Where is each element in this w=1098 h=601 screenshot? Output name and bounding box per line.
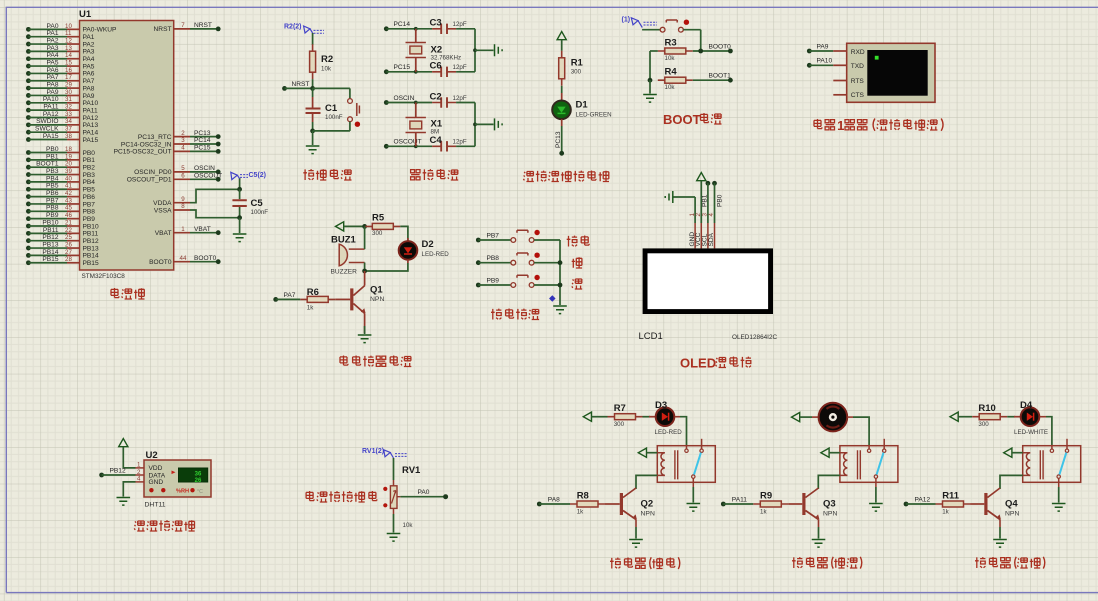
svg-text:PA10: PA10 [817, 58, 833, 65]
svg-text:PA12: PA12 [915, 496, 931, 503]
node PB12 [99, 467, 135, 477]
svg-text:VBAT: VBAT [194, 226, 211, 233]
node PA15 pin 38 [26, 133, 98, 144]
svg-text:BOOT0: BOOT0 [709, 43, 732, 50]
wire base [788, 503, 802, 505]
wire R5 to D2 [400, 226, 408, 240]
node OSCOUT [384, 139, 432, 149]
svg-text:2: 2 [181, 130, 185, 137]
relay RL2 [840, 439, 898, 487]
svg-text:PA13: PA13 [83, 122, 99, 129]
svg-text:C1: C1 [325, 103, 338, 114]
wire cap to right rail [456, 28, 475, 30]
svg-text:4: 4 [181, 145, 185, 152]
wire collector [364, 271, 366, 286]
svg-text:OSCOUT: OSCOUT [394, 139, 422, 146]
node VDDA pin 9 [153, 189, 239, 207]
svg-text:PA0: PA0 [418, 489, 430, 496]
node OSCIN pin 5 [134, 165, 220, 176]
wire relay common to ground [1058, 487, 1060, 503]
svg-text:LED-WHITE: LED-WHITE [1014, 429, 1048, 436]
svg-text:PB6: PB6 [83, 194, 96, 201]
svg-text:26: 26 [195, 478, 202, 484]
wire to ground [312, 131, 314, 145]
wire power to resistor [958, 416, 972, 418]
svg-text:°C: °C [197, 489, 203, 495]
svg-text:OSCOUT_PD1: OSCOUT_PD1 [127, 177, 172, 184]
transistor Q3 NPN [802, 488, 837, 520]
caption relay lighting [975, 557, 1045, 569]
svg-text:PA12: PA12 [83, 115, 99, 122]
node BOOT1 pin 20 [26, 161, 95, 172]
svg-text:VDDA: VDDA [153, 200, 172, 207]
svg-text:7: 7 [181, 22, 185, 29]
svg-text:D2: D2 [422, 239, 434, 250]
OLED pins and labels [689, 213, 715, 249]
ground emitter Q3 [812, 540, 826, 548]
node VSSA pin 8 [154, 203, 240, 218]
caption relay heating [610, 557, 680, 569]
wire VDD [123, 447, 135, 468]
svg-text:8: 8 [181, 203, 185, 210]
caption BOOT circuit [663, 112, 722, 127]
svg-text:27: 27 [65, 249, 72, 256]
svg-text:PB0: PB0 [717, 194, 724, 207]
svg-text:R3: R3 [665, 38, 677, 49]
svg-text:C2: C2 [430, 91, 442, 102]
wire NRST node down to C1 [312, 88, 314, 97]
power symbol [557, 32, 566, 40]
wire power to motor [800, 416, 812, 418]
svg-text:PA3: PA3 [47, 45, 59, 52]
node PA7 pin 17 [26, 74, 95, 85]
svg-text:NPN: NPN [823, 511, 837, 518]
node PB7 [476, 232, 511, 242]
svg-text:PA9: PA9 [817, 43, 829, 50]
svg-text:12pF: 12pF [453, 139, 467, 146]
svg-text:PA4: PA4 [83, 56, 95, 63]
wire to R2 [312, 33, 314, 45]
wire base [971, 503, 985, 505]
wire power to coil [647, 452, 658, 454]
node PB1 SCL [702, 181, 711, 223]
svg-text:PA9: PA9 [83, 93, 95, 100]
node PB15 pin 28 [26, 256, 99, 267]
svg-text:PB7: PB7 [487, 232, 500, 239]
ground buzzer [358, 335, 372, 343]
svg-text:RV1: RV1 [402, 465, 421, 476]
svg-text:PB1: PB1 [46, 153, 59, 160]
wire RV1 to ground [393, 514, 395, 533]
resistor R4 10k [658, 67, 693, 92]
svg-text:36: 36 [195, 471, 202, 477]
svg-text:BOOT0: BOOT0 [149, 259, 172, 266]
svg-text:10: 10 [65, 23, 72, 30]
svg-text:PA6: PA6 [47, 67, 59, 74]
svg-text:PB9: PB9 [83, 216, 96, 223]
svg-text:PB3: PB3 [83, 172, 96, 179]
motor/fan load [812, 403, 853, 432]
wire VCC [700, 181, 702, 223]
potentiometer RV1 10k [383, 465, 421, 529]
svg-text:SWDIO: SWDIO [36, 118, 58, 125]
svg-text:Q3: Q3 [823, 499, 836, 510]
svg-text:NRST: NRST [194, 22, 212, 29]
caption relay humidify [792, 557, 862, 569]
svg-text:PA1: PA1 [47, 30, 59, 37]
power symbol buzzer [336, 222, 344, 231]
wire motor to relay [853, 417, 869, 446]
capacitor C6 12pF [430, 61, 467, 77]
svg-text:PC14-OSC32_IN: PC14-OSC32_IN [121, 141, 172, 148]
svg-text:26: 26 [65, 241, 72, 248]
svg-text:PB10: PB10 [42, 219, 58, 226]
node BOOT0 pin 44 [149, 255, 220, 266]
svg-text:PA14: PA14 [83, 129, 99, 136]
svg-text:LED-RED: LED-RED [422, 251, 450, 258]
svg-text:PC13: PC13 [555, 131, 562, 148]
svg-text:PA15: PA15 [43, 133, 59, 140]
svg-text:PB6: PB6 [46, 190, 59, 197]
wire relay common to ground [692, 487, 694, 503]
svg-text:1: 1 [137, 462, 141, 469]
svg-text:PA3: PA3 [83, 49, 95, 56]
power symbol OLED VCC [697, 173, 706, 181]
svg-text:12: 12 [65, 37, 72, 44]
svg-text:18: 18 [65, 146, 72, 153]
node PA11 [721, 496, 753, 506]
svg-text:PB2: PB2 [83, 165, 96, 172]
node PA1 pin 11 [26, 30, 95, 41]
svg-text:43: 43 [65, 197, 72, 204]
caption serial window [814, 118, 943, 133]
caption set [567, 236, 589, 247]
node PB5 pin 41 [26, 183, 95, 194]
svg-text:37: 37 [65, 126, 72, 133]
svg-text:PB7: PB7 [46, 197, 59, 204]
svg-text:R4: R4 [665, 67, 678, 78]
svg-text:13: 13 [65, 45, 72, 52]
probe marker (1) [622, 17, 658, 28]
node PA7 [273, 292, 300, 302]
svg-text:BUZZER: BUZZER [331, 269, 358, 276]
resistor R3 10k [658, 38, 693, 63]
ground emitter Q4 [993, 540, 1007, 548]
svg-text:15: 15 [65, 59, 72, 66]
svg-text:31: 31 [65, 96, 72, 103]
node PC13 pin 2 [138, 130, 221, 141]
node PB14 pin 27 [26, 249, 99, 260]
wire button to BOOT0 node [700, 30, 702, 51]
caption alarm circuit [340, 356, 411, 367]
reset button [313, 88, 360, 130]
buzzer BUZ1 [331, 234, 365, 275]
power symbol top [583, 412, 591, 421]
svg-text:PB5: PB5 [83, 187, 96, 194]
node PB11 pin 22 [26, 227, 98, 238]
svg-text:39: 39 [65, 168, 72, 175]
wire VSSA to ground [239, 218, 241, 233]
caption light adjust [306, 491, 377, 502]
crystal X1 8M [406, 103, 443, 147]
ground DHT11 [117, 498, 131, 506]
svg-text:D3: D3 [655, 400, 667, 411]
node PA11 pin 32 [26, 104, 98, 115]
node PB0 pin 18 [26, 146, 95, 157]
svg-text:1: 1 [837, 118, 844, 133]
wire key rail [559, 240, 561, 305]
svg-text:PB8: PB8 [46, 205, 59, 212]
wire D4 to relay [1046, 417, 1052, 446]
svg-text:100nF: 100nF [251, 209, 269, 216]
caption temp-humidity module [134, 520, 194, 531]
node PA2 pin 12 [26, 37, 95, 48]
node VBAT pin 1 [155, 226, 221, 237]
key button PB7 [511, 230, 560, 243]
svg-text:1: 1 [181, 226, 185, 233]
svg-text:100nF: 100nF [325, 114, 343, 121]
wire emitter to ground [364, 314, 366, 334]
node PA8 [537, 496, 570, 506]
resistor R10 300 [972, 403, 1007, 428]
wire power to coil [1012, 452, 1023, 454]
ground relay RL2 [869, 504, 883, 512]
caption main chip [111, 288, 145, 299]
svg-text:25: 25 [65, 234, 72, 241]
svg-text:OLED12864I2C: OLED12864I2C [732, 334, 778, 341]
resistor R2 10k [310, 44, 334, 79]
svg-text:OSCIN: OSCIN [394, 95, 415, 102]
ground crystal [495, 44, 503, 56]
svg-text:OSCOUT: OSCOUT [194, 173, 222, 180]
probe marker C5(2) [231, 172, 266, 180]
node SWDIO pin 34 [26, 118, 98, 129]
svg-text:19: 19 [65, 153, 72, 160]
node PA3 pin 13 [26, 45, 95, 56]
svg-text:BUZ1: BUZ1 [331, 234, 357, 245]
svg-text:PA0-WKUP: PA0-WKUP [83, 27, 118, 34]
svg-text:NPN: NPN [370, 296, 384, 303]
svg-text:Q2: Q2 [641, 499, 654, 510]
ground reset [306, 146, 320, 154]
sensor U2 DHT11 [136, 450, 212, 509]
svg-text:PB9: PB9 [487, 277, 500, 284]
caption keys [491, 309, 539, 320]
node PA12 [904, 496, 936, 506]
wire R3 to R4 [650, 50, 658, 52]
svg-text:LED-RED: LED-RED [655, 429, 683, 436]
wire to ground tap [475, 123, 494, 125]
svg-text:%RH: %RH [176, 489, 189, 495]
svg-text:PB14: PB14 [42, 249, 58, 256]
svg-text:12pF: 12pF [453, 64, 467, 71]
svg-text:46: 46 [65, 212, 72, 219]
capacitor C2 12pF [430, 91, 467, 107]
power symbol top [950, 412, 958, 421]
svg-text:45: 45 [65, 205, 72, 212]
svg-text:10k: 10k [665, 84, 676, 91]
wire cap to right rail [456, 71, 475, 73]
svg-text:11: 11 [65, 30, 72, 37]
svg-text:30: 30 [65, 89, 72, 96]
svg-text:PB5: PB5 [46, 183, 59, 190]
probe marker keys [549, 295, 556, 302]
svg-text:BOOT: BOOT [663, 112, 701, 127]
svg-text:PA5: PA5 [83, 63, 95, 70]
wire base [605, 503, 620, 505]
wire power to node [344, 225, 365, 227]
svg-text:PA10: PA10 [83, 100, 99, 107]
node PC15 [384, 64, 432, 74]
node PB9 pin 46 [26, 212, 95, 223]
transistor Q2 NPN [620, 488, 655, 520]
svg-text:PB9: PB9 [46, 212, 59, 219]
svg-text:PA0: PA0 [47, 23, 59, 30]
svg-text:C3: C3 [430, 18, 442, 29]
wire power to resistor [592, 416, 608, 418]
svg-text:5: 5 [181, 165, 185, 172]
svg-text:STM32F103C8: STM32F103C8 [82, 273, 126, 280]
svg-text:C5: C5 [251, 198, 264, 209]
node PA6 pin 16 [26, 67, 95, 78]
power symbol relay coil [1004, 448, 1012, 457]
svg-text:42: 42 [65, 190, 72, 197]
svg-text:PA11: PA11 [732, 496, 747, 503]
svg-text:29: 29 [65, 82, 72, 89]
svg-text:GND: GND [149, 479, 164, 486]
svg-text:PA8: PA8 [47, 82, 59, 89]
wire coil to collector [1000, 475, 1023, 489]
svg-text:PB13: PB13 [83, 245, 99, 252]
ground relay RL3 [1052, 504, 1066, 512]
svg-text:(1): (1) [622, 17, 631, 24]
node NRST [282, 81, 315, 91]
svg-text:20: 20 [65, 161, 72, 168]
svg-text:14: 14 [65, 52, 72, 59]
probe marker R2(2) [284, 24, 324, 34]
LED D2 LED-RED [399, 238, 449, 263]
svg-text:R11: R11 [942, 491, 960, 502]
caption plus [572, 257, 582, 268]
node PC14 [384, 21, 432, 31]
svg-text:R9: R9 [760, 491, 772, 502]
svg-text:PB1: PB1 [702, 194, 709, 207]
wire GND pin [694, 197, 696, 223]
svg-text:PA7: PA7 [47, 74, 59, 81]
node BOOT0 [693, 43, 733, 53]
svg-text:DHT11: DHT11 [145, 502, 166, 509]
power symbol relay coil [638, 448, 646, 457]
svg-text:PB8: PB8 [487, 255, 500, 262]
node PB9 [476, 277, 511, 287]
wire R1 to D1 [561, 86, 563, 93]
svg-text:PC13: PC13 [194, 130, 211, 137]
svg-text:PB0: PB0 [46, 146, 59, 153]
svg-text:16: 16 [65, 67, 72, 74]
svg-text:R5: R5 [372, 212, 385, 223]
wire power to coil [829, 452, 840, 454]
svg-text:34: 34 [65, 118, 72, 125]
node PC15 pin 4 [114, 145, 221, 156]
wire D1 to PC13 node [555, 119, 564, 156]
svg-text:PA11: PA11 [43, 104, 58, 111]
wire emitter to ground [818, 520, 820, 528]
svg-text:12pF: 12pF [453, 95, 467, 102]
svg-text:NPN: NPN [1005, 511, 1019, 518]
svg-text:32.768KHz: 32.768KHz [431, 55, 462, 62]
node SWCLK pin 37 [26, 126, 98, 137]
svg-text:OLED: OLED [680, 356, 716, 371]
node PB6 pin 42 [26, 190, 95, 201]
node PA0 [400, 489, 448, 499]
resistor R9 1k [753, 491, 788, 516]
resistor R11 1k [936, 491, 971, 516]
svg-text:PA2: PA2 [47, 37, 59, 44]
node PB8 pin 45 [26, 205, 95, 216]
wire cap to right rail [456, 145, 475, 147]
transistor Q4 NPN [984, 488, 1019, 520]
svg-text:PB15: PB15 [83, 260, 99, 267]
svg-text:PC15-OSC32_OUT: PC15-OSC32_OUT [114, 149, 172, 156]
svg-text:PB1: PB1 [83, 157, 96, 164]
svg-text:C4: C4 [430, 135, 443, 146]
node PA5 pin 15 [26, 59, 95, 70]
svg-text:3: 3 [181, 137, 185, 144]
probe marker RV1(2) [362, 448, 408, 458]
svg-text:R6: R6 [307, 287, 319, 298]
pin RTS stub [833, 80, 846, 82]
svg-text:VBAT: VBAT [155, 230, 172, 237]
capacitor C3 12pF [430, 18, 467, 34]
LED D3 LED-RED [643, 400, 683, 436]
wire right rail [474, 103, 476, 147]
resistor R7 300 [608, 403, 643, 428]
svg-text:LCD1: LCD1 [639, 331, 663, 342]
power symbol DHT11 [119, 439, 128, 447]
caption minus [572, 279, 582, 289]
svg-text:C5(2): C5(2) [249, 172, 267, 179]
svg-text:U1: U1 [79, 9, 92, 20]
svg-text:PA7: PA7 [83, 78, 95, 85]
svg-text:PA11: PA11 [83, 107, 98, 114]
node PB1 pin 19 [26, 153, 95, 164]
svg-text:PA10: PA10 [43, 96, 59, 103]
svg-text:R2: R2 [321, 54, 333, 65]
wire cap to right rail [456, 102, 475, 104]
svg-text:PB4: PB4 [46, 175, 59, 182]
svg-text:RV1(2): RV1(2) [362, 448, 384, 455]
svg-text:PB8: PB8 [83, 209, 96, 216]
node PB8 [476, 255, 511, 265]
svg-text:NRST: NRST [292, 81, 310, 88]
node PB3 pin 39 [26, 168, 95, 179]
wire coil to collector [636, 475, 657, 489]
svg-text:BOOT1: BOOT1 [36, 161, 59, 168]
capacitor C5 100nF [232, 178, 268, 220]
svg-text:PA5: PA5 [47, 59, 59, 66]
svg-text:NRST: NRST [154, 26, 172, 33]
caption run indicator [523, 171, 609, 182]
node PB7 pin 43 [26, 197, 95, 208]
svg-text:LED-GREEN: LED-GREEN [576, 112, 612, 119]
svg-text:PB10: PB10 [83, 223, 99, 230]
svg-text:PA12: PA12 [43, 111, 59, 118]
wire relay common to ground [875, 487, 877, 503]
svg-text:TXD: TXD [851, 63, 864, 70]
resistor R1 300 [559, 51, 584, 86]
svg-text:PB14: PB14 [83, 253, 99, 260]
ground keys [553, 306, 567, 314]
